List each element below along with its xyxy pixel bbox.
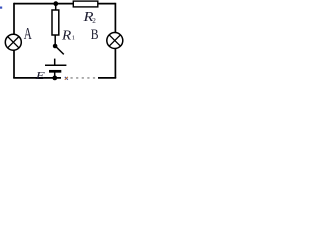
svg-text:R: R	[61, 28, 72, 43]
svg-text:1: 1	[72, 34, 75, 41]
svg-text:A: A	[24, 24, 32, 43]
svg-text:2: 2	[92, 17, 96, 25]
svg-text:B: B	[91, 27, 99, 43]
svg-text:E: E	[34, 70, 45, 82]
